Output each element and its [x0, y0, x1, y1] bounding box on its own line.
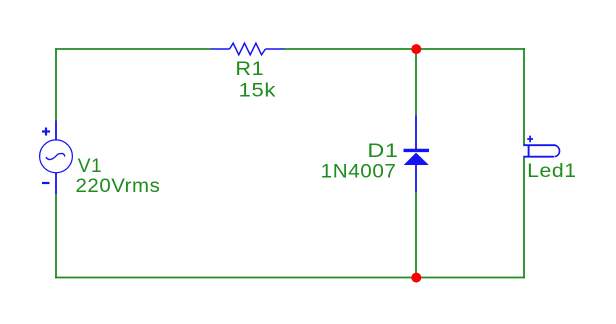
junction dot top (node between R1, D1, Led1): [411, 44, 421, 54]
wire top-left horizontal: [55, 48, 211, 50]
D1 cathode bar: [404, 149, 430, 152]
wire left vertical upper: [55, 48, 57, 120]
V1 minus sign: [42, 182, 50, 184]
Led1 plus sign: [527, 136, 533, 143]
V1 plus sign: [42, 128, 50, 136]
svg-text:220Vrms: 220Vrms: [76, 175, 161, 197]
svg-text:V1: V1: [78, 155, 103, 177]
wire top-middle horizontal: [284, 48, 416, 50]
wire top-right horizontal: [416, 48, 525, 50]
resistor R1: [211, 43, 284, 101]
wire left vertical lower: [55, 194, 57, 278]
R1 zigzag body: [230, 43, 266, 55]
Led1 bottom lead / body bottom edge: [523, 156, 554, 158]
V1 bottom lead: [55, 173, 57, 194]
svg-text:R1: R1: [235, 58, 264, 80]
diode D1: [321, 116, 429, 193]
wire right vertical lower: [523, 157, 525, 278]
V1 top lead: [55, 121, 57, 141]
wire bottom-left horizontal: [55, 277, 416, 279]
R1 right lead: [266, 48, 285, 50]
svg-text:D1: D1: [367, 140, 398, 162]
LED Led1: [523, 136, 576, 183]
V1 circle body: [40, 140, 73, 173]
wire bottom-right horizontal: [416, 277, 525, 279]
D1 anode triangle: [404, 153, 429, 165]
voltage source V1: [40, 121, 161, 198]
V1 sine wave: [46, 154, 65, 160]
wire middle vertical upper: [415, 49, 417, 116]
svg-text:Led1: Led1: [527, 160, 577, 182]
R1 left lead: [211, 48, 230, 50]
junction dot bottom (node between V1, D1, Led1): [411, 273, 421, 283]
Led1 rounded cap: [555, 145, 560, 157]
Led1 left flange: [528, 145, 530, 158]
svg-text:1N4007: 1N4007: [321, 160, 397, 182]
D1 bottom lead: [415, 163, 417, 192]
svg-text:15k: 15k: [239, 79, 276, 101]
wire middle vertical lower: [415, 192, 417, 277]
Led1 top lead / body top edge: [523, 144, 555, 146]
D1 top lead: [415, 116, 417, 151]
wire right vertical upper: [523, 48, 525, 145]
